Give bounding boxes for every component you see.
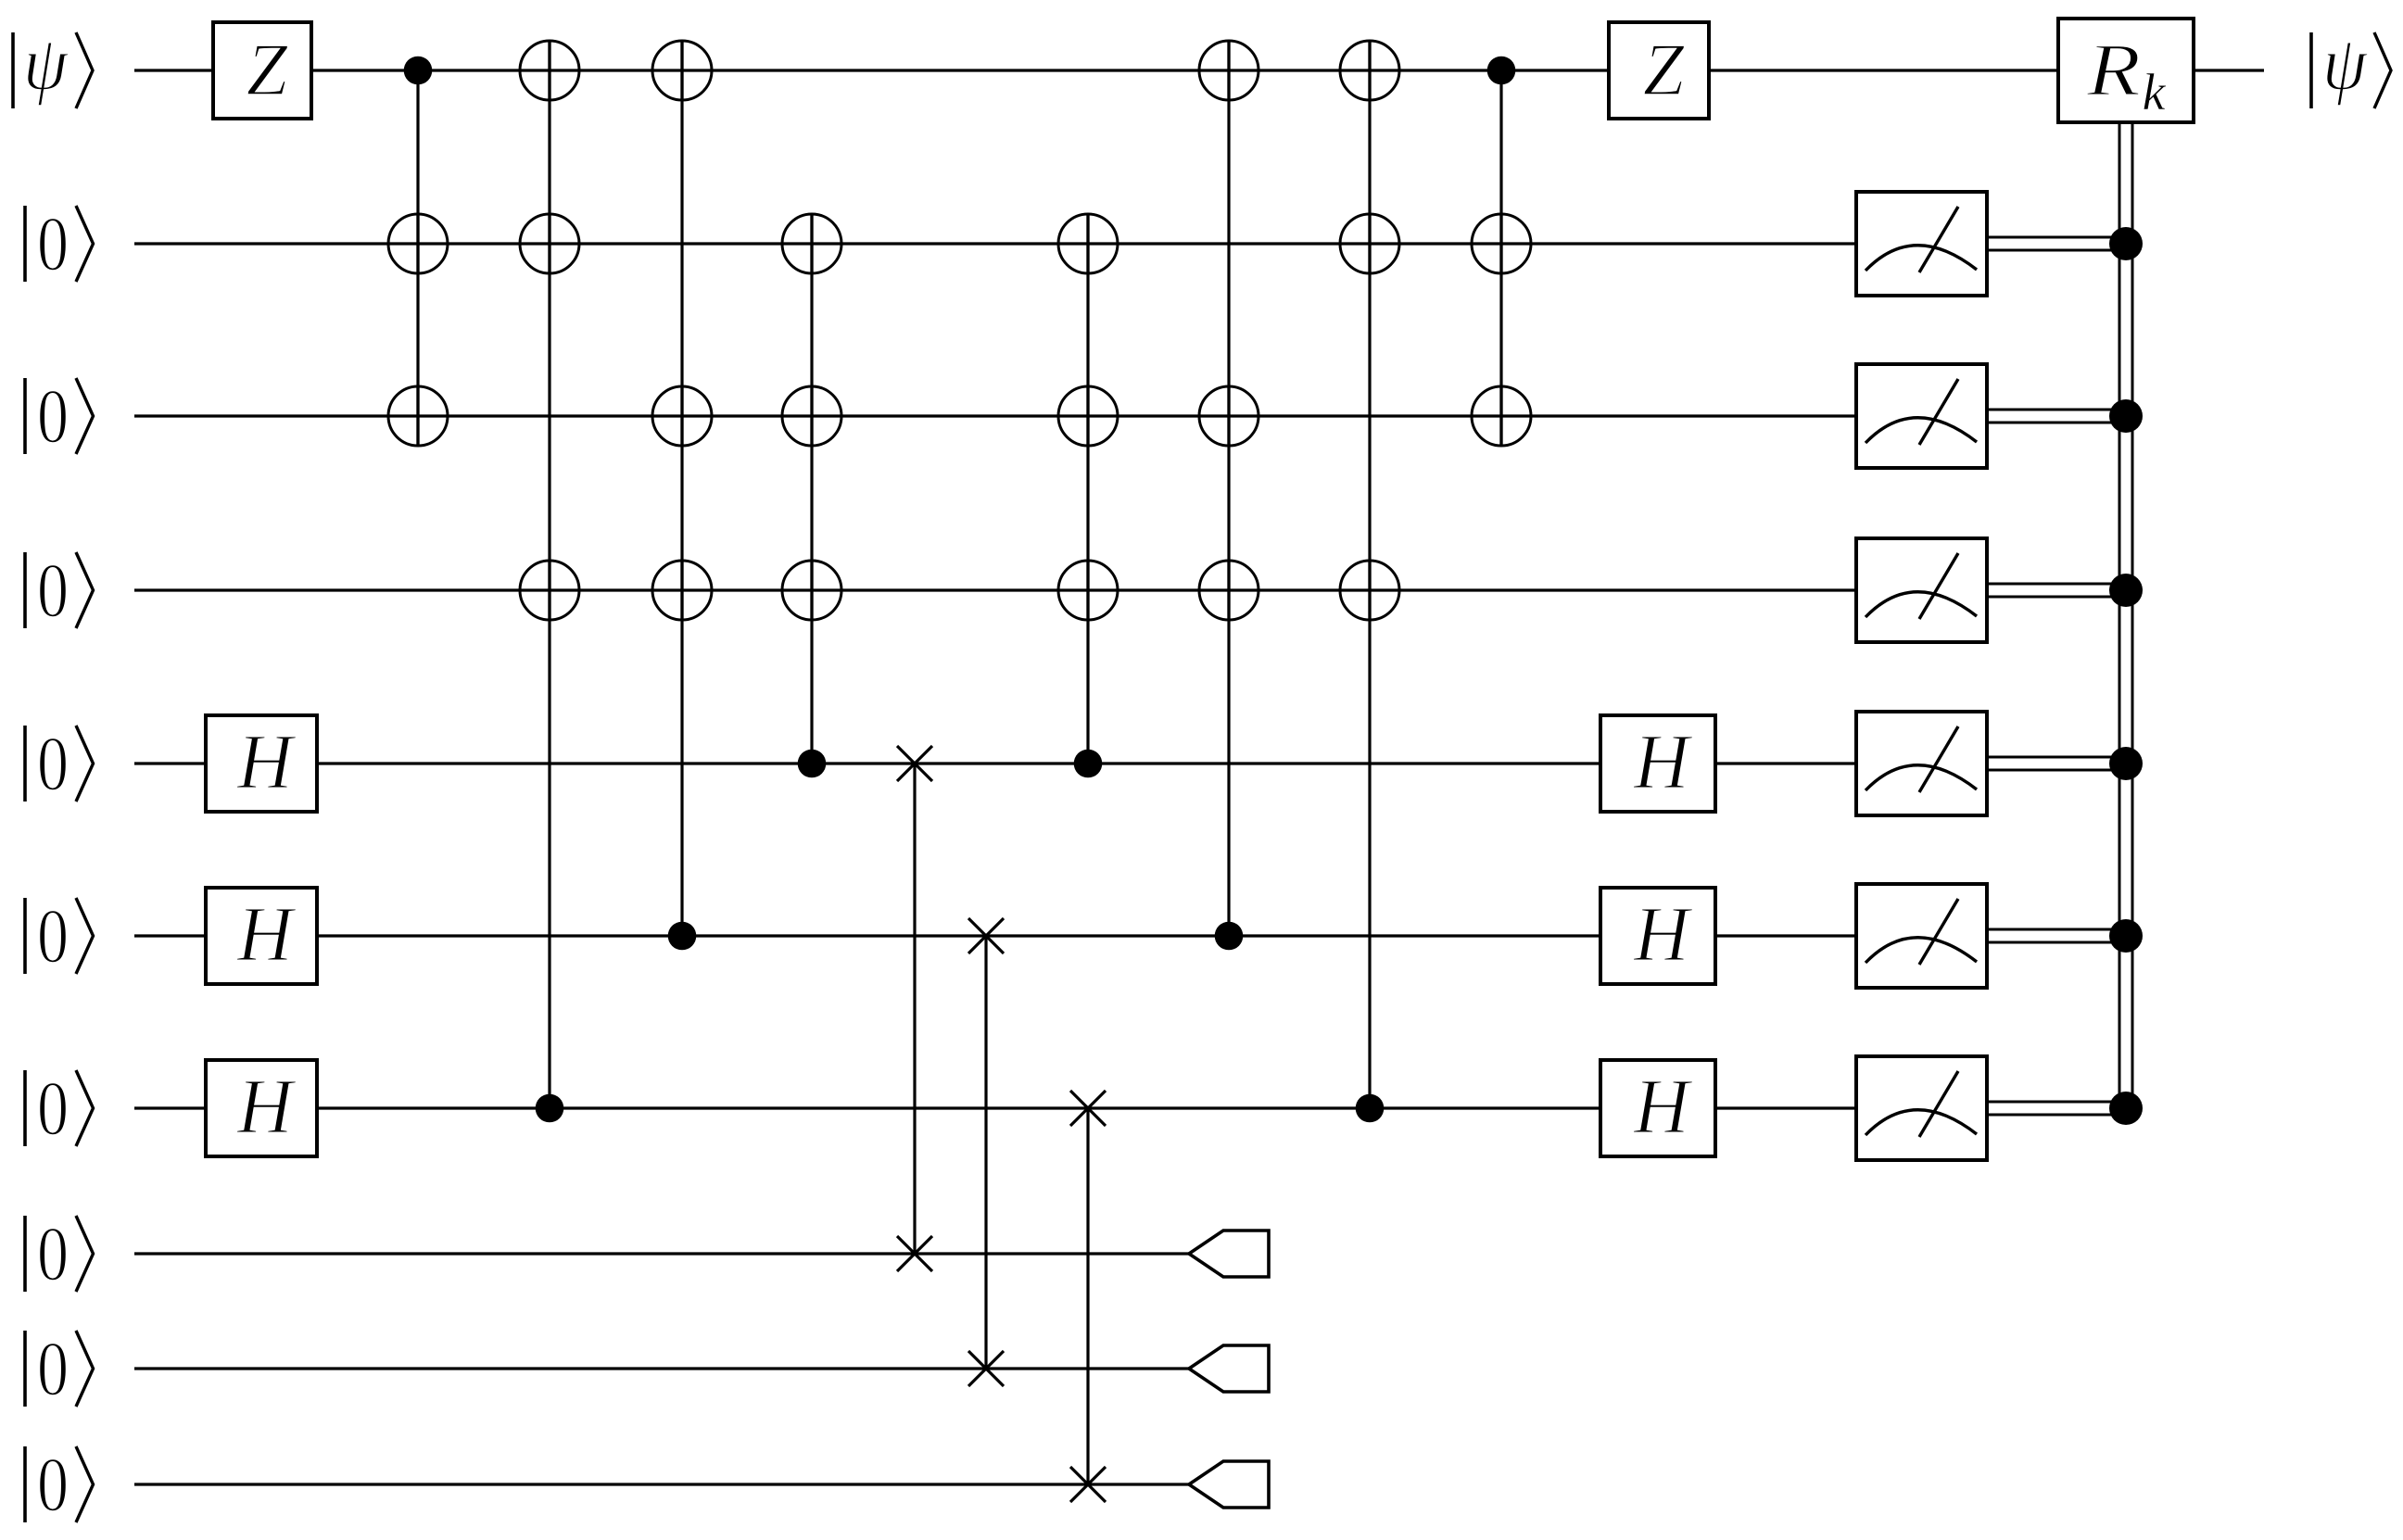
wire qubit 5 segment between H gates	[317, 762, 1600, 764]
classical double wire from meter qubit 7 to bus	[1987, 1102, 2132, 1115]
wire vertical connector CNOT column x=736 (ctrl q6, targets q1 q3 q4)	[680, 41, 683, 936]
wire vertical connector CNOT column x=451 (ctrl q1, targets q2 q3)	[416, 70, 419, 446]
control dot on qubit 1 at x=451	[404, 57, 433, 85]
input state label |0> qubit 3	[25, 373, 94, 460]
measurement meter on qubit 5	[1856, 712, 1987, 815]
wire vertical connector CNOT column x=1326 (ctrl q6, targets q1 q3 q4)	[1227, 41, 1230, 936]
classical bus junction dot at qubit 4 row	[2109, 574, 2143, 607]
svg-text:0: 0	[37, 721, 69, 807]
CNOT target on qubit 3 at x=1326	[1199, 386, 1258, 446]
CNOT target on qubit 4 at x=1326	[1199, 561, 1258, 620]
CNOT target on qubit 1 at x=1478	[1340, 41, 1399, 100]
gate H on qubit 6 (right)	[1600, 888, 1715, 984]
svg-text:ψ: ψ	[23, 20, 70, 107]
swap cross on qubit 7 at x=1174	[1070, 1091, 1106, 1126]
svg-text:0: 0	[37, 548, 69, 634]
wire qubit 7 segment left of H gate	[134, 1106, 206, 1109]
classical double wire from meter qubit 2 to bus	[1987, 237, 2132, 250]
classical double wire from meter qubit 6 to bus	[1987, 929, 2132, 942]
wire vertical connector CNOT column x=876 (ctrl q5, targets q2 q3 q4)	[810, 214, 813, 764]
wire qubit 5 segment left of H gate	[134, 762, 206, 764]
gate H on qubit 6 (left)	[206, 888, 317, 984]
wire qubit 6 segment left of H gate	[134, 934, 206, 937]
CNOT target on qubit 1 at x=736	[652, 41, 712, 100]
measurement meter on qubit 3	[1856, 364, 1987, 468]
svg-text:0: 0	[37, 1066, 69, 1152]
CNOT target on qubit 2 at x=593	[520, 214, 579, 273]
CNOT target on qubit 2 at x=876	[782, 214, 841, 273]
wire qubit 6 segment between H gates	[317, 934, 1600, 937]
gate Z (left) on qubit 1	[213, 22, 311, 119]
wire qubit 5 segment from H gate to meter	[1715, 762, 1856, 764]
wire vertical connector CNOT column x=1620 (ctrl q1, targets q2 q3)	[1499, 70, 1502, 446]
measurement meter on qubit 7	[1856, 1056, 1987, 1160]
wire qubit 9	[134, 1367, 1189, 1370]
svg-text:H: H	[1633, 890, 1693, 978]
wire qubit 7 segment from H gate to meter	[1715, 1106, 1856, 1109]
control dot on qubit 7 at x=593	[536, 1094, 564, 1123]
CNOT target on qubit 3 at x=451	[388, 386, 448, 446]
classical double wire from meter qubit 5 to bus	[1987, 757, 2132, 770]
measurement meter on qubit 6	[1856, 884, 1987, 988]
classical bus junction dot at qubit 7 row	[2109, 1092, 2143, 1125]
svg-text:0: 0	[37, 201, 69, 287]
swap cross on qubit 8 at x=987	[897, 1236, 932, 1271]
wire qubit 6 segment from H gate to meter	[1715, 934, 1856, 937]
svg-text:Z: Z	[247, 30, 289, 111]
wire vertical connector SWAP q5-q8 x=987	[913, 764, 916, 1254]
CNOT target on qubit 2 at x=1174	[1058, 214, 1118, 273]
input state label |0> qubit 4	[25, 548, 94, 634]
CNOT target on qubit 2 at x=451	[388, 214, 448, 273]
svg-text:0: 0	[37, 1326, 69, 1412]
svg-text:H: H	[236, 1063, 297, 1150]
classical bus junction dot at qubit 6 row	[2109, 919, 2143, 953]
CNOT target on qubit 2 at x=1478	[1340, 214, 1399, 273]
control dot on qubit 1 at x=1620	[1487, 57, 1516, 85]
svg-text:0: 0	[37, 1211, 69, 1297]
classical bus junction dot at qubit 2 row	[2109, 227, 2143, 260]
classical double wire from meter qubit 4 to bus	[1987, 584, 2132, 597]
classical bus junction dot at qubit 5 row	[2109, 747, 2143, 780]
input state label |0> qubit 2	[25, 201, 94, 287]
swap cross on qubit 10 at x=1174	[1070, 1467, 1106, 1502]
gate Rk controlled rotation on qubit 1	[2058, 19, 2194, 122]
swap cross on qubit 6 at x=1064	[968, 918, 1004, 953]
CNOT target on qubit 3 at x=736	[652, 386, 712, 446]
input state label |0> qubit 8	[25, 1211, 94, 1297]
discard tag terminator on qubit 8	[1189, 1231, 1269, 1277]
input state label |0> qubit 6	[25, 893, 94, 979]
control dot on qubit 6 at x=736	[668, 922, 697, 951]
svg-text:H: H	[1633, 718, 1693, 805]
control dot on qubit 6 at x=1326	[1215, 922, 1244, 951]
wire vertical connector SWAP q7-q10 x=1174	[1086, 1108, 1089, 1484]
gate H on qubit 5 (left)	[206, 715, 317, 812]
svg-text:k: k	[2143, 64, 2167, 121]
CNOT target on qubit 4 at x=736	[652, 561, 712, 620]
CNOT target on qubit 3 at x=1174	[1058, 386, 1118, 446]
measurement meter on qubit 2	[1856, 192, 1987, 296]
output state label |psi> qubit 1 right	[2311, 20, 2391, 108]
svg-text:R: R	[2086, 30, 2141, 111]
classical double bus vertical from Rk down to qubit 7 row	[2119, 122, 2132, 1108]
CNOT target on qubit 3 at x=876	[782, 386, 841, 446]
gate H on qubit 7 (left)	[206, 1060, 317, 1156]
wire vertical connector CNOT column x=593 (ctrl q7, targets q1 q2 q4)	[548, 41, 550, 1108]
input state label |0> qubit 9	[25, 1326, 94, 1412]
gate H on qubit 7 (right)	[1600, 1060, 1715, 1156]
gate Z (right) on qubit 1	[1609, 22, 1709, 119]
wire qubit 10	[134, 1483, 1189, 1485]
svg-text:0: 0	[37, 373, 69, 460]
wire qubit 1 segment left of Z gate	[134, 69, 213, 71]
wire qubit 3	[134, 414, 1856, 417]
CNOT target on qubit 1 at x=593	[520, 41, 579, 100]
svg-text:H: H	[1633, 1063, 1693, 1150]
gate H on qubit 5 (right)	[1600, 715, 1715, 812]
svg-text:ψ: ψ	[2322, 20, 2369, 107]
control dot on qubit 7 at x=1478	[1356, 1094, 1385, 1123]
control dot on qubit 5 at x=876	[798, 750, 827, 778]
classical double wire from meter qubit 3 to bus	[1987, 410, 2132, 423]
svg-text:0: 0	[37, 1442, 69, 1528]
CNOT target on qubit 4 at x=876	[782, 561, 841, 620]
discard tag terminator on qubit 10	[1189, 1461, 1269, 1508]
wire qubit 8	[134, 1252, 1189, 1255]
svg-text:H: H	[236, 890, 297, 978]
CNOT target on qubit 1 at x=1326	[1199, 41, 1258, 100]
wire vertical connector SWAP q6-q9 x=1064	[984, 936, 987, 1369]
CNOT target on qubit 4 at x=1174	[1058, 561, 1118, 620]
CNOT target on qubit 4 at x=593	[520, 561, 579, 620]
wire vertical connector CNOT column x=1174 (ctrl q5, targets q2 q3 q4)	[1086, 214, 1089, 764]
wire vertical connector CNOT column x=1478 (ctrl q7, targets q1 q2 q4)	[1368, 41, 1371, 1108]
classical bus junction dot at qubit 3 row	[2109, 399, 2143, 433]
wire qubit 1 segment right of Rk gate	[2194, 69, 2264, 71]
wire qubit 1 segment from Z gate to Rk gate	[311, 69, 2058, 71]
wire qubit 2	[134, 242, 1856, 245]
input state label |0> qubit 7	[25, 1066, 94, 1152]
wire qubit 4	[134, 588, 1856, 591]
input state label |0> qubit 10	[25, 1442, 94, 1528]
input state label |0> qubit 5	[25, 721, 94, 807]
CNOT target on qubit 4 at x=1478	[1340, 561, 1399, 620]
input state label |psi> qubit 1	[13, 20, 93, 108]
control dot on qubit 5 at x=1174	[1074, 750, 1103, 778]
CNOT target on qubit 2 at x=1620	[1472, 214, 1531, 273]
swap cross on qubit 9 at x=1064	[968, 1351, 1004, 1386]
discard tag terminator on qubit 9	[1189, 1345, 1269, 1392]
measurement meter on qubit 4	[1856, 538, 1987, 642]
svg-text:H: H	[236, 718, 297, 805]
svg-text:0: 0	[37, 893, 69, 979]
svg-text:Z: Z	[1643, 30, 1686, 111]
CNOT target on qubit 3 at x=1620	[1472, 386, 1531, 446]
swap cross on qubit 5 at x=987	[897, 746, 932, 781]
wire qubit 7 segment between H gates	[317, 1106, 1600, 1109]
